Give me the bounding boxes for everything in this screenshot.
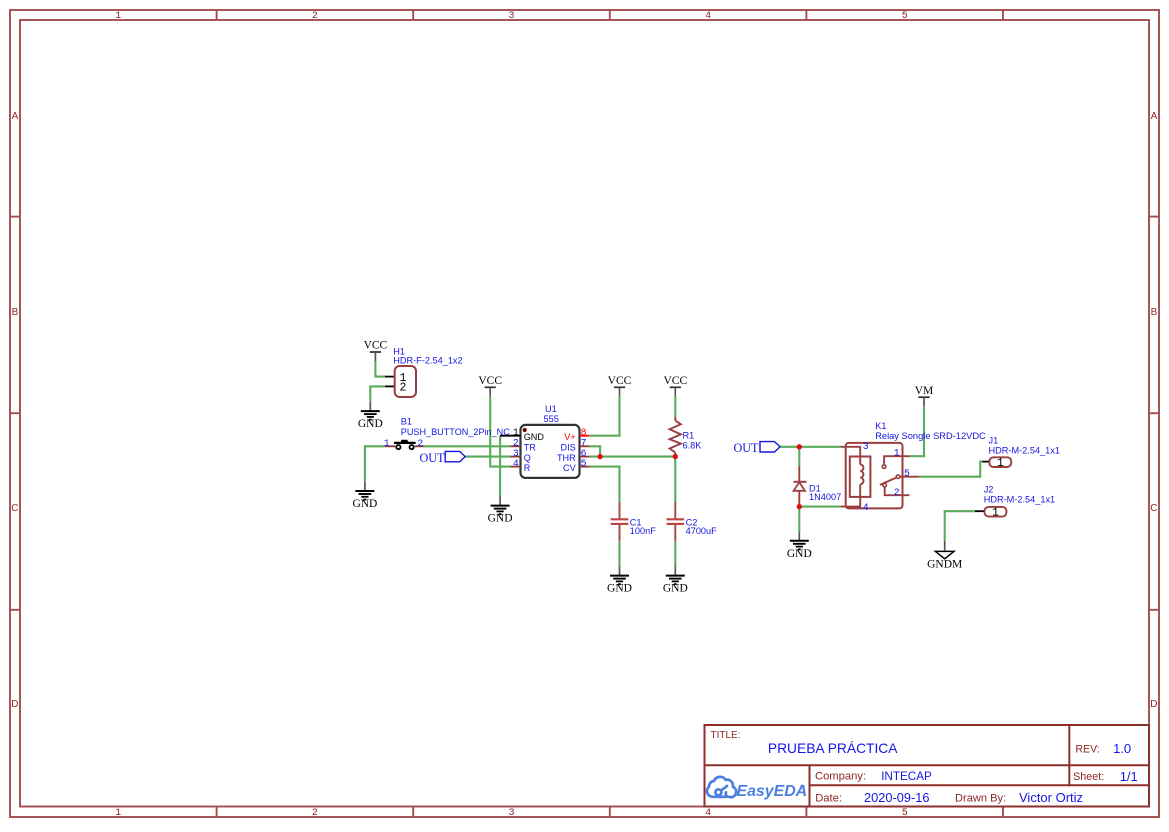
svg-text:PUSH_BUTTON_2Pin_NC: PUSH_BUTTON_2Pin_NC <box>401 427 510 437</box>
svg-text:8: 8 <box>581 427 587 438</box>
svg-text:D: D <box>11 699 18 710</box>
svg-text:2020-09-16: 2020-09-16 <box>864 790 929 805</box>
svg-text:C: C <box>1150 503 1157 514</box>
svg-text:6.8K: 6.8K <box>683 440 703 450</box>
svg-text:3: 3 <box>863 441 869 452</box>
svg-text:Relay Songle SRD-12VDC: Relay Songle SRD-12VDC <box>875 431 986 441</box>
svg-text:R1: R1 <box>683 430 695 440</box>
svg-text:Sheet:: Sheet: <box>1073 771 1104 783</box>
svg-text:GND: GND <box>358 418 383 430</box>
svg-text:HDR-M-2.54_1x1: HDR-M-2.54_1x1 <box>984 495 1055 505</box>
svg-text:100nF: 100nF <box>630 526 656 536</box>
svg-text:4: 4 <box>863 502 869 513</box>
svg-text:INTECAP: INTECAP <box>881 770 932 783</box>
svg-text:®: ® <box>800 783 805 791</box>
svg-text:GND: GND <box>488 513 513 525</box>
svg-text:2: 2 <box>312 11 318 22</box>
svg-text:4: 4 <box>513 458 519 469</box>
svg-text:J2: J2 <box>984 484 994 494</box>
svg-text:VCC: VCC <box>478 375 502 387</box>
svg-text:GNDM: GNDM <box>927 559 962 571</box>
svg-text:1/1: 1/1 <box>1120 769 1138 784</box>
svg-text:VCC: VCC <box>608 375 632 387</box>
svg-text:2: 2 <box>894 487 900 498</box>
svg-text:Q: Q <box>524 453 531 463</box>
svg-text:CV: CV <box>563 463 577 473</box>
svg-text:1.0: 1.0 <box>1113 741 1131 756</box>
svg-text:1: 1 <box>384 438 390 449</box>
svg-text:4: 4 <box>705 11 711 22</box>
svg-text:4: 4 <box>705 808 711 819</box>
svg-text:5: 5 <box>581 458 587 469</box>
svg-text:B: B <box>1151 307 1158 318</box>
svg-text:B1: B1 <box>401 417 412 427</box>
svg-text:HDR-F-2.54_1x2: HDR-F-2.54_1x2 <box>393 356 462 366</box>
svg-text:1: 1 <box>997 457 1004 470</box>
svg-text:REV:: REV: <box>1075 744 1099 756</box>
svg-text:PRUEBA PRÁCTICA: PRUEBA PRÁCTICA <box>768 740 898 756</box>
svg-text:Victor Ortiz: Victor Ortiz <box>1019 790 1083 805</box>
svg-text:GND: GND <box>663 583 688 595</box>
svg-text:1: 1 <box>894 447 900 458</box>
svg-text:K1: K1 <box>875 421 886 431</box>
svg-text:1N4007: 1N4007 <box>809 492 841 502</box>
svg-text:3: 3 <box>508 11 514 22</box>
svg-text:HDR-M-2.54_1x1: HDR-M-2.54_1x1 <box>989 445 1060 455</box>
svg-text:5: 5 <box>904 468 910 479</box>
svg-text:DIS: DIS <box>561 443 576 453</box>
svg-text:EasyEDA: EasyEDA <box>737 783 808 800</box>
svg-text:5: 5 <box>902 11 908 22</box>
svg-text:GND: GND <box>524 432 545 442</box>
svg-text:A: A <box>12 111 19 122</box>
svg-text:D: D <box>1150 699 1157 710</box>
svg-text:OUT: OUT <box>419 451 445 465</box>
svg-text:Company:: Company: <box>815 771 866 783</box>
svg-text:1: 1 <box>992 506 999 519</box>
svg-text:3: 3 <box>508 808 514 819</box>
svg-text:GND: GND <box>352 498 377 510</box>
svg-text:TITLE:: TITLE: <box>711 730 741 741</box>
svg-text:A: A <box>1151 111 1158 122</box>
svg-text:Drawn By:: Drawn By: <box>955 793 1006 805</box>
svg-text:1: 1 <box>513 427 519 438</box>
svg-text:VM: VM <box>915 385 934 397</box>
svg-text:2: 2 <box>400 381 407 394</box>
svg-text:4700uF: 4700uF <box>686 526 718 536</box>
svg-text:2: 2 <box>417 438 423 449</box>
svg-text:THR: THR <box>557 453 576 463</box>
svg-text:R: R <box>524 463 531 473</box>
svg-text:B: B <box>12 307 19 318</box>
svg-text:VCC: VCC <box>663 375 687 387</box>
svg-text:Date:: Date: <box>815 793 842 805</box>
svg-text:GND: GND <box>787 548 812 560</box>
svg-text:OUT: OUT <box>733 441 759 455</box>
svg-text:555: 555 <box>544 414 559 424</box>
svg-text:V+: V+ <box>564 432 575 442</box>
svg-text:J1: J1 <box>989 435 999 445</box>
svg-text:C: C <box>11 503 18 514</box>
svg-text:VCC: VCC <box>364 340 388 352</box>
svg-text:5: 5 <box>902 808 908 819</box>
svg-text:2: 2 <box>312 808 318 819</box>
svg-text:U1: U1 <box>545 404 557 414</box>
svg-text:1: 1 <box>115 11 121 22</box>
svg-text:GND: GND <box>607 583 632 595</box>
svg-text:TR: TR <box>524 443 537 453</box>
svg-text:1: 1 <box>115 808 121 819</box>
